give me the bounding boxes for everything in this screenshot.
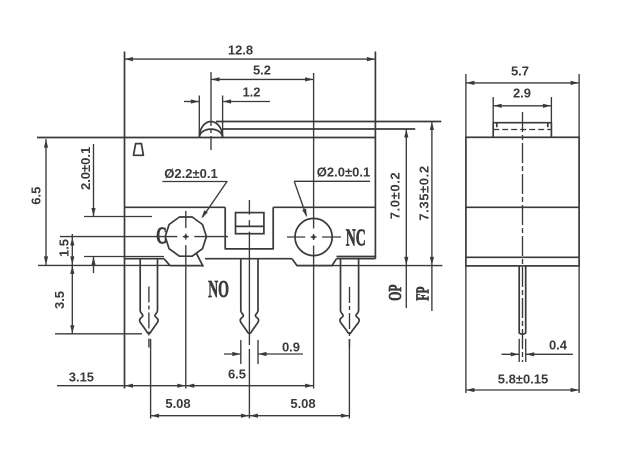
dimension 5.8 right arrow bbox=[571, 388, 580, 392]
pocket top line right bbox=[273, 206, 375, 208]
side view pin right extension bbox=[525, 339, 527, 362]
svg-text:5.2: 5.2 bbox=[253, 63, 271, 78]
dimension 5.7 right extension bbox=[578, 74, 580, 137]
NC terminal hole bbox=[295, 218, 332, 255]
svg-text:1.2: 1.2 bbox=[242, 85, 260, 100]
dimension 5.2 left arrow bbox=[211, 77, 220, 81]
dimension 2.9 right arrow bbox=[543, 104, 552, 108]
svg-text:2.0±0.1: 2.0±0.1 bbox=[78, 147, 93, 190]
dimension 3.15 right arrow bbox=[177, 384, 186, 388]
callout 2.2 arrow bbox=[201, 210, 208, 218]
svg-text:2.9: 2.9 bbox=[513, 86, 531, 101]
front view body right edge / 12.8 right extension bbox=[374, 52, 376, 259]
dimension 3.5 line bbox=[71, 265, 73, 333]
dimension 12.8 line bbox=[125, 58, 376, 60]
NC hole horizontal centerline bbox=[287, 236, 305, 238]
dimension 2.0 lower leader bbox=[93, 257, 95, 274]
side view button chamfer right bbox=[547, 123, 549, 128]
dimension 5.7 left extension bbox=[465, 74, 467, 137]
dimension 0.9 left arrow bbox=[232, 352, 241, 356]
dimension 0.9 left tail bbox=[224, 353, 241, 355]
center contact rectangle bbox=[236, 213, 264, 234]
dimension 0.9 right ext bbox=[257, 340, 259, 364]
FP line (free position) bbox=[216, 121, 441, 123]
svg-text:5.08: 5.08 bbox=[165, 396, 190, 411]
dimension 0.9 right tail bbox=[258, 353, 303, 355]
pocket step (U around center contact) bbox=[225, 207, 273, 249]
svg-text:Ø2.2±0.1: Ø2.2±0.1 bbox=[164, 166, 217, 181]
dimension 1.2 right arrow bbox=[223, 99, 232, 103]
dimension 7.35 top arrow bbox=[430, 122, 434, 131]
svg-text:6.5: 6.5 bbox=[228, 367, 246, 382]
dimension 1.2 right tail bbox=[223, 101, 270, 103]
side view body outline bbox=[466, 137, 579, 266]
callout 2.2 underline+leader bbox=[162, 182, 227, 218]
svg-text:7.0±0.2: 7.0±0.2 bbox=[388, 172, 403, 219]
side view internal line upper bbox=[466, 206, 579, 208]
svg-text:NC: NC bbox=[346, 226, 366, 252]
svg-text:3.15: 3.15 bbox=[69, 370, 94, 385]
side view button chamfer left bbox=[496, 123, 498, 128]
dimension 6.5b left arrow bbox=[186, 384, 195, 388]
dimension 2.9 right extension bbox=[550, 97, 552, 123]
C hole center dot bbox=[184, 235, 187, 238]
plunger right side / 1.2 extension bbox=[222, 96, 224, 138]
dimension 2.0 extension line bbox=[84, 216, 152, 218]
dimension 3.5 extension bottom bbox=[55, 333, 142, 335]
dimension 1.2 left tail bbox=[184, 101, 199, 103]
NO pin centerline bbox=[248, 200, 250, 215]
body bottom edge middle segment bbox=[205, 258, 292, 260]
dimension 7.35 bottom arrow bbox=[430, 257, 434, 266]
dimension 0.4 left tail bbox=[502, 353, 520, 355]
svg-text:1.5: 1.5 bbox=[56, 239, 71, 257]
dimension 0.4 left arrow bbox=[511, 352, 520, 356]
dimension 7.35 extension bottom bbox=[297, 265, 442, 267]
dimension 6.5 bottom arrow bbox=[44, 256, 48, 265]
svg-text:7.35±0.2: 7.35±0.2 bbox=[417, 165, 432, 220]
dimension 2.9 line bbox=[493, 105, 551, 107]
dimension 1.5 top arrow bbox=[70, 237, 74, 246]
OP line (operating position) bbox=[223, 128, 416, 130]
body bottom edge right segment bbox=[337, 258, 376, 260]
NC pin centerline bbox=[349, 287, 351, 348]
svg-text:3.5: 3.5 bbox=[52, 291, 67, 309]
dimension 5.8 left extension bbox=[465, 266, 467, 393]
plunger centerline bbox=[210, 72, 212, 126]
dimension 7.35 line bbox=[431, 122, 433, 312]
plunger left side / 1.2 extension bbox=[198, 96, 200, 138]
dimension 5.7 right arrow bbox=[571, 81, 580, 85]
body bottom edge left segment bbox=[125, 258, 165, 260]
dimension 5.8 right extension bbox=[578, 266, 580, 393]
svg-text:0.4: 0.4 bbox=[549, 338, 568, 353]
dimension 7.0 bottom arrow bbox=[404, 257, 408, 266]
dimension 6.5b right arrow bbox=[305, 384, 314, 388]
dimension 0.4 right tail bbox=[526, 353, 573, 355]
pocket top line left bbox=[125, 206, 226, 208]
dimension 2.0 upper arrow bbox=[91, 208, 95, 217]
dimension 12.8 left arrow bbox=[125, 57, 134, 61]
dimension 6.5 line bbox=[45, 139, 47, 265]
dimension 5.2 line bbox=[211, 78, 314, 80]
dimension 5.7 line bbox=[466, 82, 579, 84]
svg-text:OP: OP bbox=[385, 284, 405, 300]
callout 2.0 underline+leader bbox=[294, 181, 370, 215]
front view body left edge / 12.8 left extension bbox=[124, 52, 126, 389]
front view body top edge bbox=[37, 137, 375, 139]
dimension 5.08 left arrow bbox=[151, 414, 160, 418]
dimension 2.9 left extension bbox=[492, 97, 494, 123]
dimension 6.5 top arrow bbox=[44, 139, 48, 148]
svg-text:Ø2.0±0.1: Ø2.0±0.1 bbox=[317, 165, 370, 180]
C terminal hole (polygonal) bbox=[165, 217, 206, 256]
svg-text:0.9: 0.9 bbox=[282, 339, 300, 354]
dimension 5.08 line bbox=[151, 415, 350, 417]
side view internal line lower bbox=[466, 256, 579, 258]
dimension 6.5 left extension bottom bbox=[38, 264, 170, 266]
NC hole center dot bbox=[312, 236, 315, 239]
dimension 0.9 left ext bbox=[240, 340, 242, 364]
svg-text:5.08: 5.08 bbox=[290, 396, 315, 411]
inner floor line right bbox=[337, 256, 376, 258]
dimension 5.08 ext left pin bbox=[150, 339, 152, 419]
C pin (left terminal) bbox=[140, 259, 159, 334]
C hole vertical centerline / 3.15-6.5 extension bbox=[185, 211, 187, 228]
dimension 1.5 line bbox=[71, 234, 73, 270]
dimension 2.0 upper leader bbox=[93, 144, 95, 217]
dimension 5.7 left arrow bbox=[466, 81, 475, 85]
left standoff right wall bbox=[197, 254, 204, 267]
svg-text:6.5: 6.5 bbox=[29, 187, 44, 205]
center contact midline bbox=[236, 225, 264, 227]
dimension 5.08 ext right pin bbox=[348, 339, 350, 419]
dimension 1.2 left arrow bbox=[191, 99, 200, 103]
plunger dome outer arc bbox=[199, 122, 222, 138]
svg-text:C: C bbox=[156, 223, 167, 249]
dimension 5.08 right arrow bbox=[341, 414, 350, 418]
svg-text:FP: FP bbox=[413, 286, 433, 300]
inner floor line left / 2.0 extension bbox=[84, 256, 164, 258]
svg-text:5.7: 5.7 bbox=[511, 64, 529, 79]
dimension 5.2 right arrow bbox=[305, 77, 314, 81]
side view centerline bbox=[522, 112, 524, 362]
dimension 7.0 top arrow bbox=[404, 129, 408, 138]
svg-text:5.8±0.15: 5.8±0.15 bbox=[498, 372, 549, 387]
side view pin left extension bbox=[518, 339, 520, 362]
svg-text:NO: NO bbox=[208, 277, 229, 303]
side view button bbox=[493, 123, 551, 138]
mold mark trapezoid icon bbox=[134, 144, 144, 156]
NC pin (right terminal) bbox=[340, 259, 359, 334]
dimension 3.5 top arrow bbox=[70, 265, 74, 274]
dimension 7.0 line bbox=[405, 129, 407, 308]
left standoff bbox=[164, 259, 203, 266]
dimension 5.08 mid arrows bbox=[241, 414, 250, 418]
dimension 2.0 lower arrow bbox=[91, 257, 95, 266]
side view pin bbox=[519, 266, 526, 334]
dimension 3.15 left arrow bbox=[125, 384, 134, 388]
dimension 0.9 right arrow bbox=[258, 352, 267, 356]
dimension 5.8 left arrow bbox=[466, 388, 475, 392]
svg-text:12.8: 12.8 bbox=[228, 43, 253, 58]
side view button dashed line bbox=[493, 129, 551, 131]
dimension 2.9 left arrow bbox=[493, 104, 502, 108]
callout 2.0 arrow bbox=[302, 209, 307, 218]
dimension 1.5 bottom arrow bbox=[70, 256, 74, 265]
NC hole vertical centerline / 5.2-6.5 extension bbox=[313, 73, 315, 229]
NO pin (middle terminal) bbox=[240, 259, 258, 334]
dimension 12.8 right arrow bbox=[367, 57, 376, 61]
plunger dome inner arc bbox=[199, 129, 222, 137]
right standoff bbox=[292, 259, 337, 266]
dimension 3.5 bottom arrow bbox=[70, 325, 74, 334]
C hole horizontal centerline bbox=[60, 236, 177, 238]
dimension 3.15-6.5 line bbox=[57, 385, 314, 387]
dimension 0.4 right arrow bbox=[526, 352, 535, 356]
dimension 5.8 line bbox=[466, 389, 579, 391]
C pin centerline bbox=[148, 287, 150, 348]
